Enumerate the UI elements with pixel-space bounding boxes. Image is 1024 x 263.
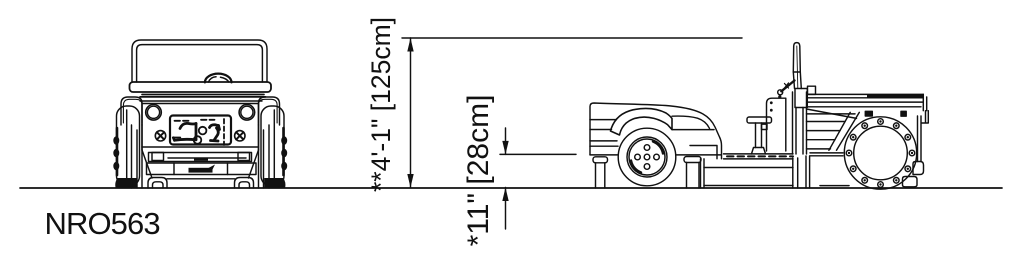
svg-text:NRO563: NRO563 (45, 206, 160, 241)
svg-text:*11" [28cm]: *11" [28cm] (462, 95, 495, 247)
svg-text:**4'-1" [125cm]: **4'-1" [125cm] (366, 17, 396, 192)
